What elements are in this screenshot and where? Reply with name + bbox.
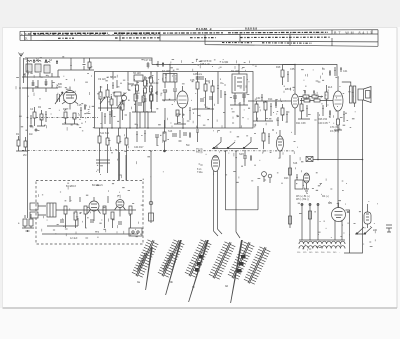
mains plug <box>386 225 392 232</box>
svg-text:R23: R23 <box>284 177 289 180</box>
mains switch <box>355 227 372 234</box>
wire antenna down-lead <box>19 57 21 140</box>
svg-text:R21 C38: R21 C38 <box>296 122 306 125</box>
header data table <box>20 30 378 47</box>
svg-text:C35: C35 <box>290 68 295 71</box>
phono output leads <box>120 152 127 181</box>
tube V1 triode-hexode <box>62 87 78 110</box>
svg-text:1.38: 1.38 <box>25 32 31 36</box>
wire speaker return <box>362 100 364 244</box>
AGC dotted line <box>22 149 295 152</box>
V3 top feed cluster <box>329 67 342 76</box>
svg-text:12 B2: 12 B2 <box>222 61 229 64</box>
wire aerial branch <box>23 58 25 83</box>
svg-text:T6 (4): T6 (4) <box>196 151 203 154</box>
aerial coil L1 <box>26 60 32 72</box>
phono resistors <box>64 206 132 228</box>
fuse F1 <box>306 157 313 162</box>
switch wafer 9f <box>244 247 270 284</box>
phono stage wire bus <box>42 210 138 234</box>
svg-text:S7 128: S7 128 <box>162 70 170 73</box>
above-box capacitor cluster <box>147 61 165 67</box>
tone caps below S15 <box>243 150 252 166</box>
wire top rail right <box>152 65 337 77</box>
phono input plugs <box>30 203 46 218</box>
aerial coil L2 <box>35 60 41 72</box>
wire AF drop <box>289 155 291 228</box>
wire top rail left <box>25 58 152 65</box>
svg-text:C44 R17: C44 R17 <box>134 146 144 149</box>
mid-left lower cluster <box>16 136 28 151</box>
capacitor C1 trimmer cluster <box>32 79 53 88</box>
switch wafer 9a <box>132 240 158 290</box>
left junction dots <box>19 87 28 118</box>
mixer cluster <box>128 80 158 112</box>
wafer link wires <box>214 229 241 238</box>
smoothing electrolytic <box>304 173 310 193</box>
loudspeaker <box>358 87 371 103</box>
svg-text:S15: S15 <box>239 152 244 156</box>
aerial trimmer caps top <box>33 59 58 64</box>
T1 tuning caps <box>162 89 177 100</box>
V3 grid resistors <box>300 85 333 118</box>
svg-text:EBC3: EBC3 <box>285 88 292 91</box>
junction box small <box>129 228 142 236</box>
svg-text:EL3: EL3 <box>328 86 333 89</box>
svg-text:170 (2%): 170 (2%) <box>330 126 340 129</box>
switch wafer 9b <box>158 240 184 295</box>
svg-text:S9 128: S9 128 <box>231 70 239 73</box>
svg-text:R14: R14 <box>268 98 273 101</box>
scan noise speckle (decorative) <box>16 57 378 250</box>
chassis box A <box>95 72 254 129</box>
svg-text:C31: C31 <box>256 97 261 100</box>
svg-text:C25 1 nF: C25 1 nF <box>200 63 210 66</box>
svg-text:BT WM 8411: BT WM 8411 <box>334 31 372 35</box>
AF coupling cluster <box>262 128 274 149</box>
output tube V3 <box>333 76 343 119</box>
box A inner feed wires <box>113 65 240 129</box>
heater bank labels <box>297 252 341 254</box>
V4 pin wires <box>335 228 342 240</box>
resistor R9 drop <box>163 120 166 152</box>
wire screened lead down <box>150 151 152 223</box>
coupling parts mid <box>172 130 187 141</box>
detector diode parts <box>253 95 277 121</box>
AGC dotted line left <box>36 117 98 119</box>
electrolytic can C50 <box>212 156 220 232</box>
earth connector cluster <box>22 214 34 232</box>
svg-text:12 4uF: 12 4uF <box>70 237 78 240</box>
oscillator cluster <box>98 80 127 111</box>
svg-text:R18: R18 <box>276 66 281 69</box>
coupling cap on aerial rail <box>70 58 86 70</box>
rectifier tube V4 <box>332 203 346 229</box>
T2 tuning caps <box>230 95 261 105</box>
V2 top-left parts <box>281 65 295 86</box>
svg-text:S16: S16 <box>293 162 298 165</box>
IF amp tube V2a <box>177 86 188 118</box>
wire earth lead <box>27 58 29 218</box>
pickup pot cluster <box>262 172 272 183</box>
mixer chain cluster <box>134 72 153 109</box>
svg-text:R26 150: R26 150 <box>318 118 328 121</box>
svg-text:2M: 2M <box>23 154 26 157</box>
svg-text:9a: 9a <box>137 280 141 284</box>
osc trimmer arrows <box>100 97 123 108</box>
box A junction dots <box>136 64 363 161</box>
svg-text:C17 40: C17 40 <box>144 59 152 62</box>
AF drop components <box>289 168 304 224</box>
electrolytic can C52 <box>277 130 284 158</box>
wire V3 to V4 <box>337 130 339 208</box>
wire V2 top feed <box>294 65 296 95</box>
antenna <box>19 53 24 57</box>
output transformer <box>342 82 356 107</box>
svg-text:T10a: T10a <box>197 171 203 174</box>
svg-text:A230: A230 <box>56 86 62 89</box>
svg-text:C9 120: C9 120 <box>98 78 106 81</box>
svg-text:2.: 2. <box>25 37 28 41</box>
RF input cluster <box>30 107 47 131</box>
svg-text:Rd (+): Rd (+) <box>322 195 329 198</box>
detector extra parts <box>277 104 288 126</box>
V2 grid parts <box>299 90 323 98</box>
power wires triple <box>302 203 318 240</box>
svg-text:C19: C19 <box>154 82 159 85</box>
svg-text:S5 128: S5 128 <box>133 72 141 75</box>
svg-text:C41: C41 <box>343 70 348 73</box>
svg-text:C15: C15 <box>77 104 82 107</box>
aerial coil L3 <box>44 61 50 73</box>
svg-text:+: + <box>21 32 23 36</box>
phono input transformer <box>47 203 56 217</box>
svg-text:S11 S12: S11 S12 <box>100 132 110 135</box>
phono caps <box>60 196 122 224</box>
connector socket <box>149 201 154 221</box>
svg-text:C14: C14 <box>132 84 137 87</box>
phono tube B1 <box>88 197 101 221</box>
wire coil bus <box>22 70 94 77</box>
svg-text:C40 0.05: C40 0.05 <box>318 122 328 125</box>
switch wafer 9c <box>185 240 211 302</box>
wire coil return bus <box>22 88 58 92</box>
header row3 text <box>222 42 312 45</box>
switch wafer 9e <box>228 240 254 303</box>
switch S15 contacts <box>212 137 258 149</box>
svg-text:9d: 9d <box>225 284 229 288</box>
below-box capacitor row <box>136 130 199 145</box>
mains transformer <box>364 204 371 228</box>
wire HT feed <box>313 112 363 160</box>
svg-text:128 kc/s: 128 kc/s <box>193 73 203 76</box>
V2a cathode parts <box>174 108 191 124</box>
svg-text:9b: 9b <box>170 280 174 284</box>
IF transformer T2 <box>232 68 247 102</box>
svg-text:S13: S13 <box>168 130 173 133</box>
V2 anode load cluster <box>298 98 310 119</box>
svg-text:S6 40: S6 40 <box>110 76 117 79</box>
V3 cathode parts <box>334 112 345 130</box>
power wire terminals <box>301 204 319 206</box>
detector tube V2 <box>291 94 298 135</box>
phono tube B2 <box>115 200 126 217</box>
waveband switch cluster <box>96 128 128 180</box>
wire bus to S15 <box>226 151 259 232</box>
wire rectifier loop <box>344 210 363 253</box>
svg-text:8.8.8 8.8: 8.8.8 8.8 <box>245 27 257 31</box>
phono inner wire <box>47 218 78 226</box>
svg-text:Wh (-) Bk (-): Wh (-) Bk (-) <box>296 198 309 201</box>
wire T2 to V2 <box>261 100 291 102</box>
svg-text:R11: R11 <box>206 80 211 83</box>
phono box B dashed <box>36 181 143 245</box>
dropper resistor <box>309 211 312 219</box>
osc secondary chain <box>104 96 124 124</box>
aerial rail resistor <box>88 58 91 70</box>
box A lower drops <box>102 106 148 128</box>
svg-text:P.1.8.88. .2.: P.1.8.88. .2. <box>196 27 212 31</box>
svg-text:B1 EBC3: B1 EBC3 <box>66 185 77 188</box>
IF transformer T1 <box>163 74 177 89</box>
heater winding bank <box>299 240 345 249</box>
IF amp cluster <box>194 76 226 109</box>
switch wafer 9d <box>209 242 235 279</box>
V1 cathode parts <box>62 104 86 124</box>
gang capacitor arrow <box>55 92 63 104</box>
